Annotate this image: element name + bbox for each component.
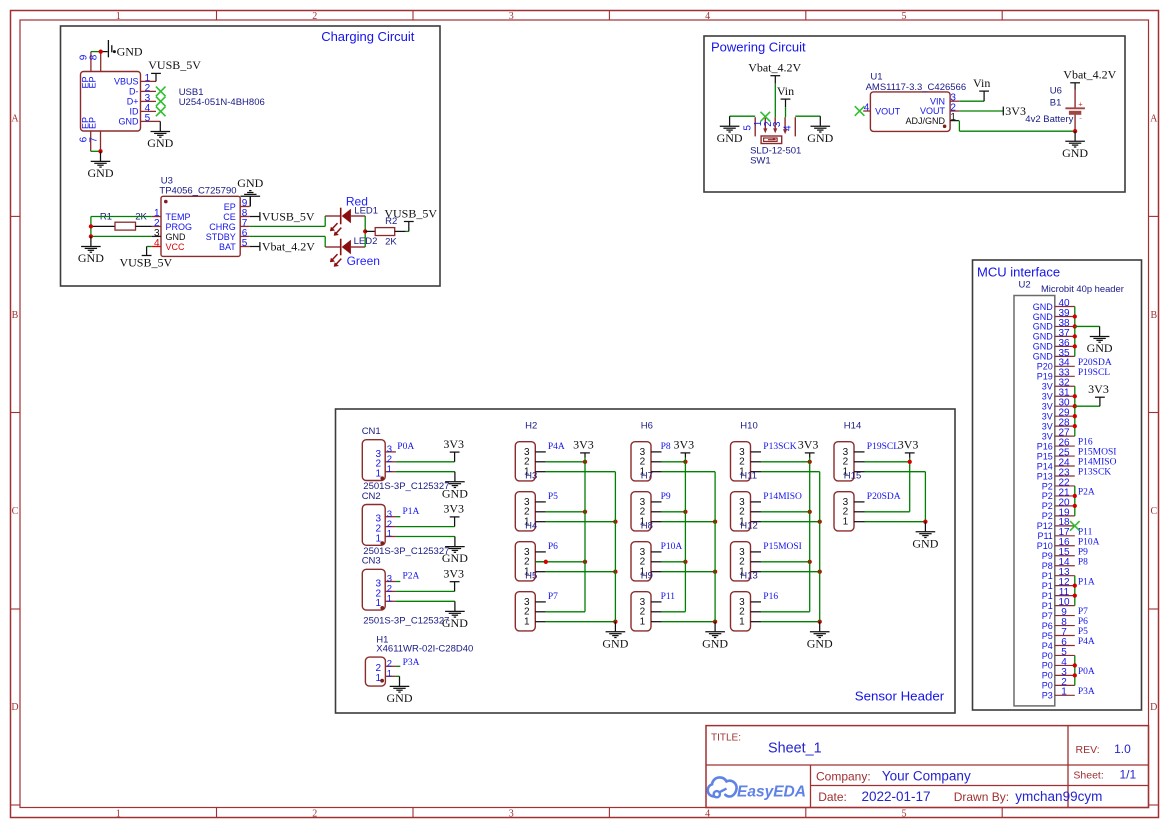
B1 reference designator U6 — [1050, 86, 1062, 97]
U2 pin 24 P14 — [1037, 457, 1075, 471]
svg-text:3V3: 3V3 — [1088, 382, 1109, 396]
wire U2 bus pins 22-19 — [1074, 486, 1076, 516]
SW1 pin 1 — [753, 118, 767, 133]
svg-text:ADJ/GND: ADJ/GND — [905, 116, 945, 126]
svg-text:H7: H7 — [641, 471, 653, 482]
svg-text:P2A: P2A — [403, 572, 420, 582]
svg-text:3V3: 3V3 — [443, 502, 464, 516]
svg-text:2501S-3P_C125327: 2501S-3P_C125327 — [363, 616, 449, 627]
U2 pin 32 3V — [1042, 378, 1075, 392]
svg-text:1: 1 — [116, 808, 121, 819]
ground GND column 4 — [912, 522, 938, 551]
net label P6 at H4 pin 3 — [548, 542, 558, 552]
net label P16 at U2 pin 26 — [1078, 438, 1093, 448]
U2 pin 5 P0 — [1042, 647, 1075, 661]
ground GND at CN2 pin 1 — [442, 537, 468, 566]
svg-text:CN1: CN1 — [362, 426, 381, 437]
U2 pin 22 P2 — [1042, 477, 1075, 491]
svg-text:4: 4 — [154, 238, 160, 249]
U2 pin 17 P11 — [1037, 527, 1074, 541]
wire H3 pin 1 to GND bus — [546, 521, 616, 523]
no-connect X at USB1 pin 2 — [156, 87, 166, 97]
ground tap GND at USB1 top — [108, 40, 143, 58]
svg-text:P3A: P3A — [1078, 687, 1095, 697]
U2 pin 18 P12 — [1037, 517, 1075, 531]
frame row ticks left — [11, 216, 21, 805]
ground GND left of SW1 — [717, 116, 743, 145]
connector H14 body — [834, 442, 854, 481]
H14 reference designator — [844, 421, 861, 432]
wire U3 TEMP net — [91, 217, 152, 237]
svg-text:5: 5 — [242, 238, 248, 249]
svg-text:P20SDA: P20SDA — [1078, 358, 1112, 368]
power flag Vin at U1 VIN — [973, 76, 990, 101]
svg-text:Drawn By:: Drawn By: — [954, 790, 1009, 804]
net label P5 at H3 pin 3 — [548, 492, 558, 502]
svg-text:3V: 3V — [1042, 431, 1053, 441]
H14 pin 2 — [843, 457, 865, 468]
svg-text:5: 5 — [902, 808, 907, 819]
junction at H15 pin 1 — [923, 520, 927, 524]
svg-text:U2: U2 — [1019, 280, 1031, 291]
svg-text:P15MOSI: P15MOSI — [763, 542, 802, 552]
CN2 reference designator — [362, 491, 381, 502]
junction at H11 pin 2 3V3 bus — [808, 510, 812, 514]
U2 pin 4 P0 — [1042, 657, 1075, 671]
H2 pin 1 — [524, 467, 546, 478]
svg-text:B: B — [12, 310, 19, 321]
svg-text:VOUT: VOUT — [920, 106, 946, 116]
junction at H11 pin 1 GND bus — [818, 520, 822, 524]
charging circuit section title — [321, 29, 415, 44]
junction at U2 pin 39 — [1073, 314, 1077, 318]
net label P3A at H1 pin 2 — [403, 658, 420, 668]
svg-text:Microbit 40p header: Microbit 40p header — [1041, 283, 1124, 294]
svg-text:P10A: P10A — [661, 542, 683, 552]
H11 pin 2 — [739, 507, 761, 518]
svg-text:H11: H11 — [740, 471, 757, 482]
svg-text:Vbat_4.2V: Vbat_4.2V — [262, 240, 315, 254]
svg-text:P6: P6 — [548, 542, 558, 552]
U2 pin 3 P0 — [1042, 667, 1075, 681]
svg-text:1: 1 — [387, 464, 392, 475]
U3 pin 5 BAT — [219, 238, 250, 252]
annotation Red — [346, 194, 368, 208]
net label P15MOSI at U2 pin 25 — [1078, 448, 1117, 458]
svg-text:3V: 3V — [1042, 421, 1053, 431]
svg-text:VUSB_5V: VUSB_5V — [384, 206, 437, 220]
connector CN1 body — [362, 440, 385, 481]
power flag Vbat_4.2V above battery B1 — [1063, 68, 1116, 90]
svg-text:3V: 3V — [1042, 382, 1053, 392]
svg-text:1: 1 — [116, 11, 121, 22]
svg-text:P11: P11 — [1037, 531, 1052, 541]
wire U2 bus pins 5-2 — [1074, 655, 1076, 685]
frame column ticks top — [217, 11, 1003, 21]
H1 value X4611WR-02I-C28D40 — [376, 644, 473, 655]
net label P13SCK at U2 pin 23 — [1078, 468, 1111, 478]
net label P13SCK at H10 pin 3 — [763, 442, 796, 452]
H5 pin 2 — [524, 607, 546, 618]
svg-text:GND: GND — [1033, 302, 1054, 312]
wire GND bus vertical — [714, 472, 716, 622]
svg-text:P9: P9 — [1078, 547, 1088, 557]
net label P19SCL at H14 pin 3 — [867, 442, 899, 452]
frame column numbers top — [116, 11, 907, 22]
mcu interface section box — [973, 260, 1142, 710]
svg-text:GND: GND — [237, 176, 263, 190]
ground GND at U2 pin 38 — [1087, 326, 1113, 355]
U3 pin 2 PROG — [152, 218, 192, 232]
U2 pin 9 P7 — [1042, 607, 1075, 621]
junction at H8 pin 2 3V3 bus — [683, 560, 687, 564]
svg-text:H9: H9 — [641, 571, 653, 582]
svg-text:P16: P16 — [1037, 441, 1053, 451]
svg-text:VUSB_5V: VUSB_5V — [262, 210, 315, 224]
net label P0A at U2 pin 3 — [1078, 667, 1095, 677]
title block date 2022-01-17 — [862, 789, 931, 804]
H9 pin 1 — [640, 617, 662, 628]
svg-text:P1: P1 — [1042, 581, 1053, 591]
H7 pin 3 — [640, 497, 662, 508]
connector H5 body — [515, 592, 535, 631]
ground GND at column bottom — [602, 622, 628, 651]
svg-text:X4611WR-02I-C28D40: X4611WR-02I-C28D40 — [376, 644, 473, 655]
title block revision 1.0 — [1114, 742, 1131, 756]
CN1 reference designator — [362, 426, 381, 437]
SW1 pin 3 — [772, 117, 787, 134]
H8 pin 3 — [640, 547, 662, 558]
connector H11 body — [731, 492, 751, 531]
H5 pin 3 — [524, 597, 546, 608]
svg-text:H6: H6 — [641, 421, 653, 432]
net label P9 at U2 pin 15 — [1078, 547, 1088, 557]
H12 pin 1 — [739, 567, 761, 578]
svg-text:P13SCK: P13SCK — [1078, 468, 1111, 478]
no-connect X at USB1 pin 3 — [156, 97, 166, 107]
svg-text:3V3: 3V3 — [443, 567, 464, 581]
H2 pin 3 — [524, 447, 546, 458]
svg-text:GND: GND — [88, 166, 114, 180]
svg-text:P12: P12 — [1037, 521, 1053, 531]
connector H6 body — [631, 442, 651, 481]
H8 pin 2 — [640, 557, 662, 568]
svg-text:3V3: 3V3 — [1005, 104, 1026, 118]
junction at U3 GND net — [89, 234, 93, 238]
svg-text:H4: H4 — [525, 521, 537, 532]
USB1 pin 6 EP bottom stub — [79, 131, 91, 151]
svg-text:P20: P20 — [1037, 362, 1053, 372]
H7 reference designator — [641, 471, 653, 482]
junction at H7 pin 1 GND bus — [713, 520, 717, 524]
power flag Vbat_4.2V at U3 BAT — [250, 240, 316, 254]
svg-text:3V3: 3V3 — [673, 438, 694, 452]
wire USB1 pin 5 to ground — [156, 120, 160, 122]
svg-text:STDBY: STDBY — [206, 232, 236, 242]
CN1 pin 1 — [376, 464, 396, 480]
power flag 3V3 at U1 VOUT — [1003, 104, 1026, 118]
svg-text:1: 1 — [376, 673, 382, 684]
junction at H5 pin 1 GND bus — [613, 620, 617, 624]
svg-text:1: 1 — [524, 617, 530, 628]
wire H1 pin 1 to ground — [396, 675, 400, 677]
net label P20SDA at H15 pin 3 — [867, 492, 901, 502]
H8 reference designator — [641, 521, 653, 532]
connector USB1 body — [81, 72, 141, 132]
svg-text:Powering Circuit: Powering Circuit — [711, 40, 806, 55]
connector H3 body — [515, 492, 535, 531]
H12 pin 3 — [739, 547, 761, 558]
svg-text:REV:: REV: — [1076, 744, 1100, 756]
junction at H9 pin 1 GND bus — [713, 620, 717, 624]
ground GND below USB1 EP — [88, 151, 114, 180]
power flag 3V3 at U2 pin 30 — [1088, 382, 1109, 406]
svg-text:GND: GND — [166, 232, 187, 242]
junction at USB1 bottom EP — [98, 149, 102, 153]
svg-text:1: 1 — [1061, 687, 1067, 698]
svg-text:7: 7 — [89, 137, 100, 143]
power flag Vbat_4.2V above SW1 pin 2 — [748, 61, 801, 84]
H13 pin 3 — [739, 597, 761, 608]
title block dividers — [706, 726, 1149, 808]
svg-text:4: 4 — [864, 102, 870, 113]
net label P9 at H7 pin 3 — [661, 492, 671, 502]
svg-text:H2: H2 — [525, 421, 537, 432]
svg-text:EP: EP — [88, 76, 98, 88]
net label P7 at U2 pin 9 — [1078, 607, 1088, 617]
H12 reference designator — [740, 521, 757, 532]
svg-text:2K: 2K — [385, 237, 397, 248]
R1 reference designator — [100, 211, 112, 222]
connector H13 body — [731, 592, 751, 631]
svg-text:P0: P0 — [1042, 671, 1053, 681]
H15 pin 1 — [843, 517, 865, 528]
junction at U2 pin 11 — [1073, 593, 1077, 597]
U2 pin 21 P2 — [1042, 487, 1075, 501]
svg-text:1/1: 1/1 — [1120, 768, 1137, 782]
power flag VUSB_5V at U3 CE — [250, 210, 315, 224]
annotation Green — [347, 254, 380, 268]
junction at U2 pin 3 — [1073, 673, 1077, 677]
H7 pin 2 — [640, 507, 662, 518]
connector H8 body — [631, 542, 651, 581]
svg-text:P0: P0 — [1042, 681, 1053, 691]
svg-text:GND: GND — [1033, 322, 1054, 332]
svg-text:1: 1 — [739, 617, 745, 628]
U3 pin 7 CHRG — [209, 218, 249, 232]
power flag 3V3 stem — [673, 438, 694, 458]
USB1 EP pin names rotated — [80, 76, 97, 129]
USB1 pin 4 ID — [130, 103, 157, 117]
svg-text:CN2: CN2 — [362, 491, 381, 502]
svg-text:P8: P8 — [1042, 561, 1053, 571]
resistor R2 — [365, 228, 409, 236]
power flag VUSB_5V at U3 VCC — [119, 247, 172, 270]
net label P19SCL at U2 pin 33 — [1078, 368, 1110, 378]
H4 reference designator — [525, 521, 537, 532]
frame row letters left — [11, 114, 19, 714]
H3 reference designator — [525, 471, 537, 482]
CN3 pin 3 — [376, 574, 401, 590]
svg-text:P4A: P4A — [1078, 637, 1095, 647]
junction at R2 left — [363, 229, 367, 233]
H3 pin 2 — [524, 507, 546, 518]
U2 pin 2 P0 — [1042, 677, 1075, 691]
svg-text:3V3: 3V3 — [443, 437, 464, 451]
junction at U2 pin 20 — [1073, 504, 1077, 508]
USB1 pin 7 EP bottom stub — [89, 131, 101, 151]
svg-text:P8: P8 — [1078, 557, 1088, 567]
svg-text:P2: P2 — [1042, 491, 1053, 501]
wire H9 pin 2 to 3V3 bus — [662, 611, 686, 613]
junction at H4 pin 2 stub — [544, 560, 548, 564]
svg-text:GND: GND — [807, 131, 833, 145]
junction at H3 pin 2 3V3 bus — [583, 510, 587, 514]
powering circuit section title — [711, 40, 806, 55]
svg-text:GND: GND — [912, 536, 938, 550]
svg-text:GND: GND — [702, 636, 728, 650]
charging circuit section box — [61, 26, 441, 286]
H6 pin 1 — [640, 467, 662, 478]
U2 pin 11 P1 — [1042, 587, 1075, 601]
U1 reference designator — [870, 72, 882, 83]
U2 pin 20 P2 — [1042, 497, 1075, 511]
junction at U2 pin 30 — [1073, 404, 1077, 408]
SW1 pin 5 — [743, 117, 756, 136]
LED LED1 red — [325, 208, 365, 236]
wire U2 3V net to 3V3 flag — [1075, 405, 1100, 407]
wire H11 pin 1 to GND bus — [761, 521, 820, 523]
net label P8 at H6 pin 3 — [661, 442, 671, 452]
power flag 3V3 column 4 — [898, 438, 919, 458]
USB1 reference designator — [179, 87, 204, 98]
svg-text:U6: U6 — [1050, 86, 1062, 97]
junction at U2 pin 31 — [1073, 394, 1077, 398]
wire H7 pin 2 to 3V3 bus — [662, 511, 686, 513]
junction at H2 pin 2 3V3 bus — [583, 460, 587, 464]
svg-text:P8: P8 — [661, 442, 671, 452]
svg-text:GND: GND — [1033, 342, 1054, 352]
net label P3A at U2 pin 1 — [1078, 687, 1095, 697]
no-connect X at SW1 pin 1 — [761, 112, 771, 122]
svg-text:1: 1 — [950, 112, 956, 123]
ground GND at column bottom — [807, 622, 833, 651]
svg-text:1: 1 — [387, 594, 392, 605]
powering circuit section box — [704, 36, 1125, 192]
H1 pin 2 — [376, 659, 401, 675]
wire EP top pair — [91, 51, 108, 53]
svg-text:VUSB_5V: VUSB_5V — [148, 58, 201, 72]
H9 pin 3 — [640, 597, 662, 608]
svg-text:P1: P1 — [1042, 601, 1053, 611]
svg-text:3V3: 3V3 — [898, 438, 919, 452]
svg-text:P1: P1 — [1042, 591, 1053, 601]
svg-text:VOUT: VOUT — [875, 107, 901, 117]
svg-text:2022-01-17: 2022-01-17 — [862, 789, 931, 804]
svg-text:VCC: VCC — [166, 242, 186, 252]
U2 pin 34 P20 — [1037, 358, 1075, 372]
svg-text:1: 1 — [376, 533, 382, 544]
svg-text:H3: H3 — [525, 471, 537, 482]
USB1 value U254-051N-4BH806 — [179, 97, 265, 108]
svg-text:GND: GND — [117, 44, 143, 58]
svg-text:D+: D+ — [127, 97, 139, 107]
H15 reference designator — [844, 471, 861, 482]
wire CN1 pin 1 to ground — [396, 471, 455, 473]
wire CN1 pin 2 to 3V3 — [396, 461, 455, 463]
ground GND right of SW1 — [807, 116, 833, 145]
svg-text:H14: H14 — [844, 421, 861, 432]
svg-text:VUSB_5V: VUSB_5V — [119, 256, 172, 270]
U2 pin 25 P15 — [1037, 447, 1075, 461]
junction at U2 pin 21 — [1073, 494, 1077, 498]
U3 pin 1 TEMP — [152, 208, 191, 222]
svg-text:-: - — [1079, 113, 1082, 123]
EasyEDA logo text — [737, 784, 806, 801]
svg-text:GND: GND — [442, 486, 468, 500]
junction at U2 pin 36 — [1073, 344, 1077, 348]
U2 pin 15 P9 — [1042, 547, 1075, 561]
U2 pin 6 P4 — [1042, 637, 1075, 651]
wire U3 EP to ground — [249, 197, 251, 207]
svg-text:P7: P7 — [1042, 611, 1053, 621]
connector H10 body — [731, 442, 751, 481]
power flag VUSB_5V at USB1 pin 1 — [148, 58, 201, 81]
svg-text:GND: GND — [717, 131, 743, 145]
U3 value TP4056_C725790 — [159, 185, 236, 196]
H14 pin 1 — [843, 467, 865, 478]
CN2 value 2501S-3P_C125327 — [363, 546, 449, 557]
wire U3 STDBY to LED2 — [250, 236, 326, 247]
svg-text:Sheet:: Sheet: — [1073, 770, 1103, 782]
U1 pin 1 ADJ/GND — [905, 112, 958, 126]
wire H11 pin 2 to 3V3 bus — [761, 511, 810, 513]
USB1 pin 3 D+ — [127, 93, 156, 107]
svg-text:P1: P1 — [1042, 571, 1053, 581]
svg-text:3V3: 3V3 — [798, 438, 819, 452]
svg-text:CE: CE — [223, 212, 236, 222]
CN3 reference designator — [362, 556, 381, 567]
wire H4 pin 2 to 3V3 bus — [535, 561, 585, 563]
H14 pin 3 — [843, 447, 865, 458]
svg-text:GND: GND — [147, 136, 173, 150]
svg-text:P2: P2 — [1042, 511, 1053, 521]
svg-text:VBUS: VBUS — [114, 77, 139, 87]
wire U1 VIN net — [960, 100, 985, 102]
svg-text:GND: GND — [78, 251, 104, 265]
power flag 3V3 at CN1 pin 2 — [443, 437, 464, 462]
wire H13 pin 2 to 3V3 bus — [761, 611, 810, 613]
frame column numbers bottom — [116, 808, 907, 819]
svg-text:P5: P5 — [1042, 631, 1053, 641]
wire U1 VOUT net — [960, 110, 1004, 112]
wire H5 pin 1 to GND bus — [546, 621, 616, 623]
svg-text:1: 1 — [843, 517, 849, 528]
U2 pin 27 3V — [1042, 428, 1075, 442]
wire CN3 pin 1 to ground — [396, 600, 455, 602]
USB1 pin 9 EP top stub — [79, 52, 91, 72]
U2 pin 1 P3 — [1042, 687, 1075, 701]
svg-text:P16: P16 — [763, 592, 778, 602]
USB1 pin 8 EP top stub — [89, 52, 101, 72]
CN2 pin 2 — [376, 519, 396, 535]
U1 pin 2 VOUT — [920, 102, 960, 116]
svg-text:VIN: VIN — [930, 96, 945, 106]
USB1 pin 2 D- — [129, 83, 156, 97]
svg-text:CHRG: CHRG — [209, 222, 236, 232]
title block company name Your Company — [882, 768, 971, 783]
wire H12 pin 1 to GND bus — [761, 571, 820, 573]
